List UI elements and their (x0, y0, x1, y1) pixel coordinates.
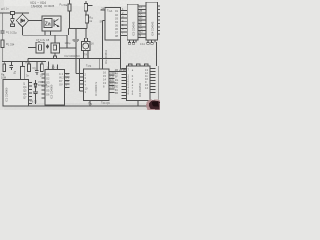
IC8 decoder box top-far-right (146, 2, 158, 40)
IC3 right pin stubs (29, 83, 33, 104)
wire: SP run to IC9 (109, 70, 127, 72)
svg-text:T04 Q9: T04 Q9 (101, 101, 110, 106)
svg-text:O3: O3 (46, 81, 50, 85)
buzzer HA1 top pad (84, 38, 87, 41)
IC7 to IC8 pin stubs (138, 6, 146, 38)
svg-text:6F: 6F (139, 23, 142, 27)
IC9 left pin stubs (122, 68, 127, 98)
wire: bus drops to IC4/IC5 area (76, 48, 80, 74)
fuse FU1 on AC line (11, 11, 15, 14)
wire: ground bottom bus (3, 105, 157, 107)
svg-text:TW: TW (88, 102, 93, 107)
IC5 left pin numbers (85, 73, 88, 95)
IC9 left pin numbers (128, 68, 130, 96)
svg-text:ICx CD4511: ICx CD4511 (104, 50, 108, 64)
IC9 right pin labels (145, 68, 148, 90)
svg-text:O4: O4 (46, 85, 50, 89)
IC5 right pin stubs (109, 71, 115, 92)
IC7 IC8 bottom notch pads (128, 43, 153, 45)
svg-text:3O: 3O (66, 72, 69, 76)
wire: pin 24 stub (100, 9, 105, 11)
wire: R1 leads (68, 0, 70, 29)
svg-text:2B: 2B (139, 9, 142, 13)
svg-text:C7 4.7µ C8: C7 4.7µ C8 (36, 38, 50, 42)
IC4 top pin stubs (49, 61, 58, 69)
svg-text:IC2 CD4060: IC2 CD4060 (50, 84, 54, 99)
IC6 right pin numbers (115, 9, 118, 38)
capacitor C3 filter 100u (73, 40, 80, 48)
svg-text:EN: EN (110, 78, 114, 82)
transformer module T1 (Za) outer box (42, 16, 61, 31)
svg-text:CO: CO (110, 75, 114, 79)
wire: bus drop to regulator input (66, 35, 68, 48)
svg-text:Q4: Q4 (23, 85, 27, 89)
svg-text:4 11: 4 11 (140, 42, 145, 46)
IC4 top pin numbers (47, 66, 59, 70)
svg-text:SP: SP (100, 20, 104, 24)
wire: +5V logic bus A (28, 58, 121, 60)
diode symbol inside bridge (20, 19, 25, 22)
svg-text:1A: 1A (139, 5, 142, 9)
svg-text:Za: Za (45, 22, 51, 28)
svg-text:48 4R: 48 4R (119, 69, 126, 73)
IC4 right stub outside labels (66, 72, 70, 87)
IC2 inner mark (53, 45, 56, 50)
svg-text:Q5: Q5 (23, 89, 27, 93)
resistor R1 vertical (68, 4, 71, 11)
svg-text:W1 1n: W1 1n (1, 7, 9, 11)
svg-text:Q: Q (23, 82, 25, 86)
svg-text:Q7: Q7 (23, 96, 27, 100)
svg-text:OV: OV (59, 83, 63, 87)
IC4 left pin stubs (42, 74, 46, 98)
wire: SP stub from IC6 (103, 20, 106, 22)
svg-text:R9: R9 (26, 61, 30, 65)
resistor R6 (28, 61, 30, 64)
bridge rectifier VD1~VD4 diamond (16, 14, 28, 27)
IC9 driver box bottom-right (127, 66, 151, 101)
svg-text:B1: B1 (13, 70, 17, 74)
wire: IC5 top feeds (99, 21, 102, 70)
svg-text:9I: 9I (139, 34, 141, 38)
paper background (0, 0, 160, 110)
wire: right edge vertical (156, 42, 158, 106)
svg-text:4D: 4D (139, 16, 142, 20)
svg-text:10M: 10M (1, 76, 6, 80)
IC3 timebase box bottom-left (3, 80, 29, 107)
IC7 decoder box top-right (127, 4, 138, 40)
IC1 top nub (38, 41, 40, 42)
svg-text:Q6: Q6 (23, 92, 27, 96)
capacitor C4 (10, 61, 14, 70)
IC6 right pin stubs to IC7 (121, 10, 128, 35)
crystal B1 tall box (22, 61, 24, 66)
regulator IC1 box (36, 42, 44, 53)
IC9 top notches (129, 64, 132, 66)
svg-text:5-1: 5-1 (66, 76, 70, 80)
svg-text:TCA: TCA (107, 9, 112, 14)
svg-text:C 2: C 2 (59, 72, 64, 76)
transformer T1 inner core box Za (44, 18, 52, 27)
wire: bridge bottom to lower bus (22, 27, 24, 35)
wire: IC5 bottom to bus (89, 101, 91, 106)
IC7-IC8 pin labels (139, 5, 142, 38)
capacitor C6 (33, 90, 38, 97)
svg-text:C5: C5 (33, 66, 37, 70)
resistor R4 on left column (1, 40, 4, 48)
IC7 left pin numbers (122, 7, 124, 35)
wire: oscillator bus B (2, 60, 46, 62)
IC5 counter box bottom-middle-right (84, 69, 109, 101)
svg-text:IN 2: IN 2 (59, 76, 64, 80)
resistor R7 (41, 61, 43, 64)
IC4 divider box bottom-middle (45, 70, 65, 105)
svg-text:O5: O5 (46, 89, 50, 93)
svg-text:DY: DY (59, 79, 63, 83)
svg-text:IC1 CD4060: IC1 CD4060 (5, 87, 9, 102)
wire: VD9 column to bottom (35, 97, 37, 104)
svg-text:7G: 7G (139, 27, 142, 31)
wire: drop from R junction to +V (69, 29, 76, 39)
capacitor C1 dropper (0, 31, 4, 40)
IC4 right pin labels (59, 72, 64, 87)
svg-text:TA3: TA3 (84, 53, 89, 57)
wire: bridge top vertex to AC line (22, 13, 24, 14)
svg-text:O2: O2 (46, 77, 50, 81)
buzzer HA1 circle (83, 43, 89, 49)
resistor R2 vertical (84, 4, 87, 12)
IC9 inner second label column (132, 69, 134, 96)
IC8 right edge stubs (158, 6, 160, 106)
wire: R chain junction bus (69, 28, 88, 30)
IC9 right pin stubs (150, 69, 156, 93)
oscillator parts: resistor R5 (3, 61, 5, 64)
wire: IC2 bottom stub with pad (54, 53, 56, 56)
wire: R2 R3 leads (86, 1, 93, 38)
svg-text:O6: O6 (46, 93, 50, 97)
IC6 clock chip box top (105, 8, 121, 41)
wire: IC9 bottom to bus (137, 101, 139, 106)
svg-text:3C: 3C (139, 13, 142, 17)
IC3 right pin labels (23, 82, 27, 100)
capacitor C2 between modules (46, 44, 49, 48)
svg-text:DR: DR (66, 79, 70, 83)
wire: IC7 IC8 bottom stubs (130, 40, 156, 43)
IC4 left pin labels (46, 73, 50, 97)
wire: IC2 output to +V node (60, 47, 76, 49)
IC5 right pin labels (103, 71, 106, 89)
svg-text:O1: O1 (46, 73, 50, 77)
transistor symbol in module (54, 19, 59, 27)
IC1 inner mark (39, 45, 42, 51)
wire: bridge output to transformer module (29, 20, 42, 22)
wire: AC line input top (0, 12, 29, 14)
wire: link bus A to bus B (27, 59, 29, 62)
wire: left mains dropper column (1, 13, 3, 31)
wire: into IC1 from left (28, 47, 36, 49)
wire: feed into IC2 top (54, 35, 56, 43)
svg-text:5B: 5B (115, 91, 118, 95)
svg-text:IC3 CD4543: IC3 CD4543 (132, 21, 136, 36)
IC5 right outside labels (110, 71, 116, 89)
svg-text:100µ: 100µ (65, 41, 71, 45)
regulator IC2 box (51, 43, 60, 53)
wire: left column to bus B (1, 48, 3, 62)
svg-text:IC4 CD4511: IC4 CD4511 (138, 82, 142, 97)
svg-text:5E: 5E (139, 20, 142, 24)
buzzer HA1 box (81, 41, 90, 50)
diode VD9 (34, 80, 37, 90)
wire: module legs to bus (45, 31, 51, 35)
capacitor C5 (35, 61, 39, 75)
svg-text:P1 Wa: P1 Wa (60, 2, 68, 6)
svg-text:C6 30: C6 30 (30, 99, 37, 103)
wire: lower AC return bus (23, 34, 68, 36)
wire: right column from IC6 down to IC9 (121, 40, 127, 69)
wire: IC4 bottom to bus (54, 104, 56, 107)
svg-text:ICI 0R25: ICI 0R25 (44, 4, 55, 8)
svg-text:C1 0.22µ: C1 0.22µ (6, 30, 17, 34)
wire: right rail to ground (157, 66, 159, 106)
varistor RV hanging from AC line (10, 15, 14, 27)
svg-text:R1 334: R1 334 (6, 42, 15, 46)
svg-text:IC4 CD4543: IC4 CD4543 (151, 21, 155, 36)
svg-text:8H: 8H (139, 30, 142, 34)
svg-text:TCS: TCS (86, 64, 91, 69)
wire: stub column for IC5 left (79, 69, 81, 91)
IC5 left pin stubs (76, 74, 84, 92)
red ink blob bottom right (146, 99, 160, 110)
svg-text:IC CD4017x: IC CD4017x (94, 81, 98, 96)
resistor R3 vertical (85, 15, 88, 23)
wire: buzzer legs to logic bus (84, 50, 88, 58)
IC4 right pin stubs (65, 74, 70, 88)
svg-text:1N4006: 1N4006 (31, 4, 42, 8)
svg-text:IC2 CD4060 I: IC2 CD4060 I (65, 54, 81, 58)
connector labels between IC5 and IC9 (115, 68, 118, 95)
